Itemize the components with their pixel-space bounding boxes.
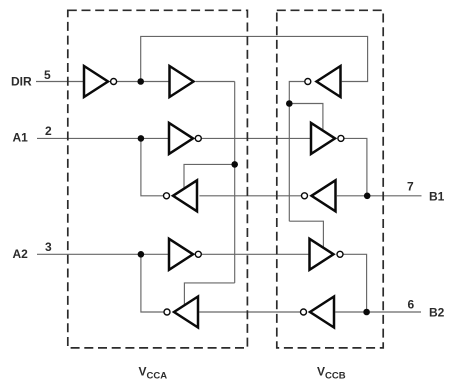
svg-text:6: 6 (408, 297, 415, 311)
dashed box VCCA domain (68, 10, 248, 348)
bubble U5 output (164, 309, 170, 315)
junction node B2 (363, 309, 370, 316)
wire U2 output to enable trunk A (196, 81, 235, 83)
inverter U1 (DIR input inverter) (84, 66, 108, 97)
bubble U1 output (111, 79, 117, 85)
wire enable tap to U7 (289, 104, 323, 131)
wire U7 output down to B1 node (344, 138, 367, 195)
wire enable tap to U5 (184, 283, 234, 306)
wire DIR lead (36, 81, 83, 83)
svg-text:DIR: DIR (11, 75, 32, 89)
junction node A2 (138, 251, 145, 258)
inverter U6 (DIR inverter, B side, left-pointing) (317, 66, 341, 97)
inverter U4 (A1 output driver, left-pointing) (173, 180, 197, 211)
bubble U8 output (302, 193, 308, 199)
wire node /DIR up over to U6 input (141, 36, 368, 81)
junction enable trunk A tap (231, 161, 238, 168)
bubble U4 output (164, 193, 170, 199)
svg-text:A2: A2 (13, 247, 29, 261)
junction enable trunk B tap (286, 100, 293, 107)
svg-text:B2: B2 (429, 306, 445, 320)
wire A1 node down to U4 output (141, 138, 163, 195)
wire U3b output to U9 input (202, 253, 309, 255)
wire U8 output to U4 input (199, 195, 301, 197)
svg-text:B1: B1 (429, 189, 445, 203)
dashed box VCCB domain (277, 10, 383, 348)
junction node /DIR (137, 78, 144, 85)
wire A2 lead (37, 253, 168, 255)
bubble U10 output (301, 309, 307, 315)
bubble U3 output (195, 135, 201, 141)
svg-text:3: 3 (45, 240, 52, 254)
wire enable tap to U9 (289, 221, 323, 248)
buffer U3 (A1 driver to B side) (169, 123, 193, 154)
buffer U9 (B2 output driver) (310, 239, 334, 270)
buffer U3b (A2 driver to B side) (169, 239, 193, 270)
svg-text:A1: A1 (13, 130, 29, 144)
svg-text:2: 2 (45, 124, 52, 138)
bubble U3b output (195, 251, 201, 257)
svg-text:7: 7 (407, 180, 414, 194)
bubble U7 output (338, 135, 344, 141)
inverter U10 (B2 receiver, left-pointing) (310, 297, 334, 328)
inverter U8 (B1 receiver, left-pointing) (312, 180, 336, 211)
wire U9 output down to B2 node (344, 254, 367, 312)
buffer U7 (B1 output driver) (311, 123, 335, 154)
wire U1 output to U2 input (117, 81, 169, 83)
bubble U9 output (337, 251, 343, 257)
wire A2 node down to U5 output (141, 254, 164, 312)
junction node B1 (364, 193, 371, 200)
wire B1 line (337, 195, 422, 197)
wire enable trunk A vertical (234, 82, 236, 283)
svg-text:5: 5 (44, 68, 51, 82)
bubble U6 output (305, 79, 311, 85)
inverter U5 (A2 output driver, left-pointing) (174, 297, 198, 328)
buffer U2 (DIR buffer) (170, 66, 194, 97)
wire U6 output to enable trunk B (289, 82, 304, 222)
wire U10 output to U5 input (199, 311, 300, 313)
wire U3 output to U7 input (202, 137, 310, 139)
wire A1 lead (37, 137, 168, 139)
wire enable tap to U4 (184, 164, 235, 189)
junction node A1 (138, 135, 145, 142)
wire B2 line (335, 311, 421, 313)
